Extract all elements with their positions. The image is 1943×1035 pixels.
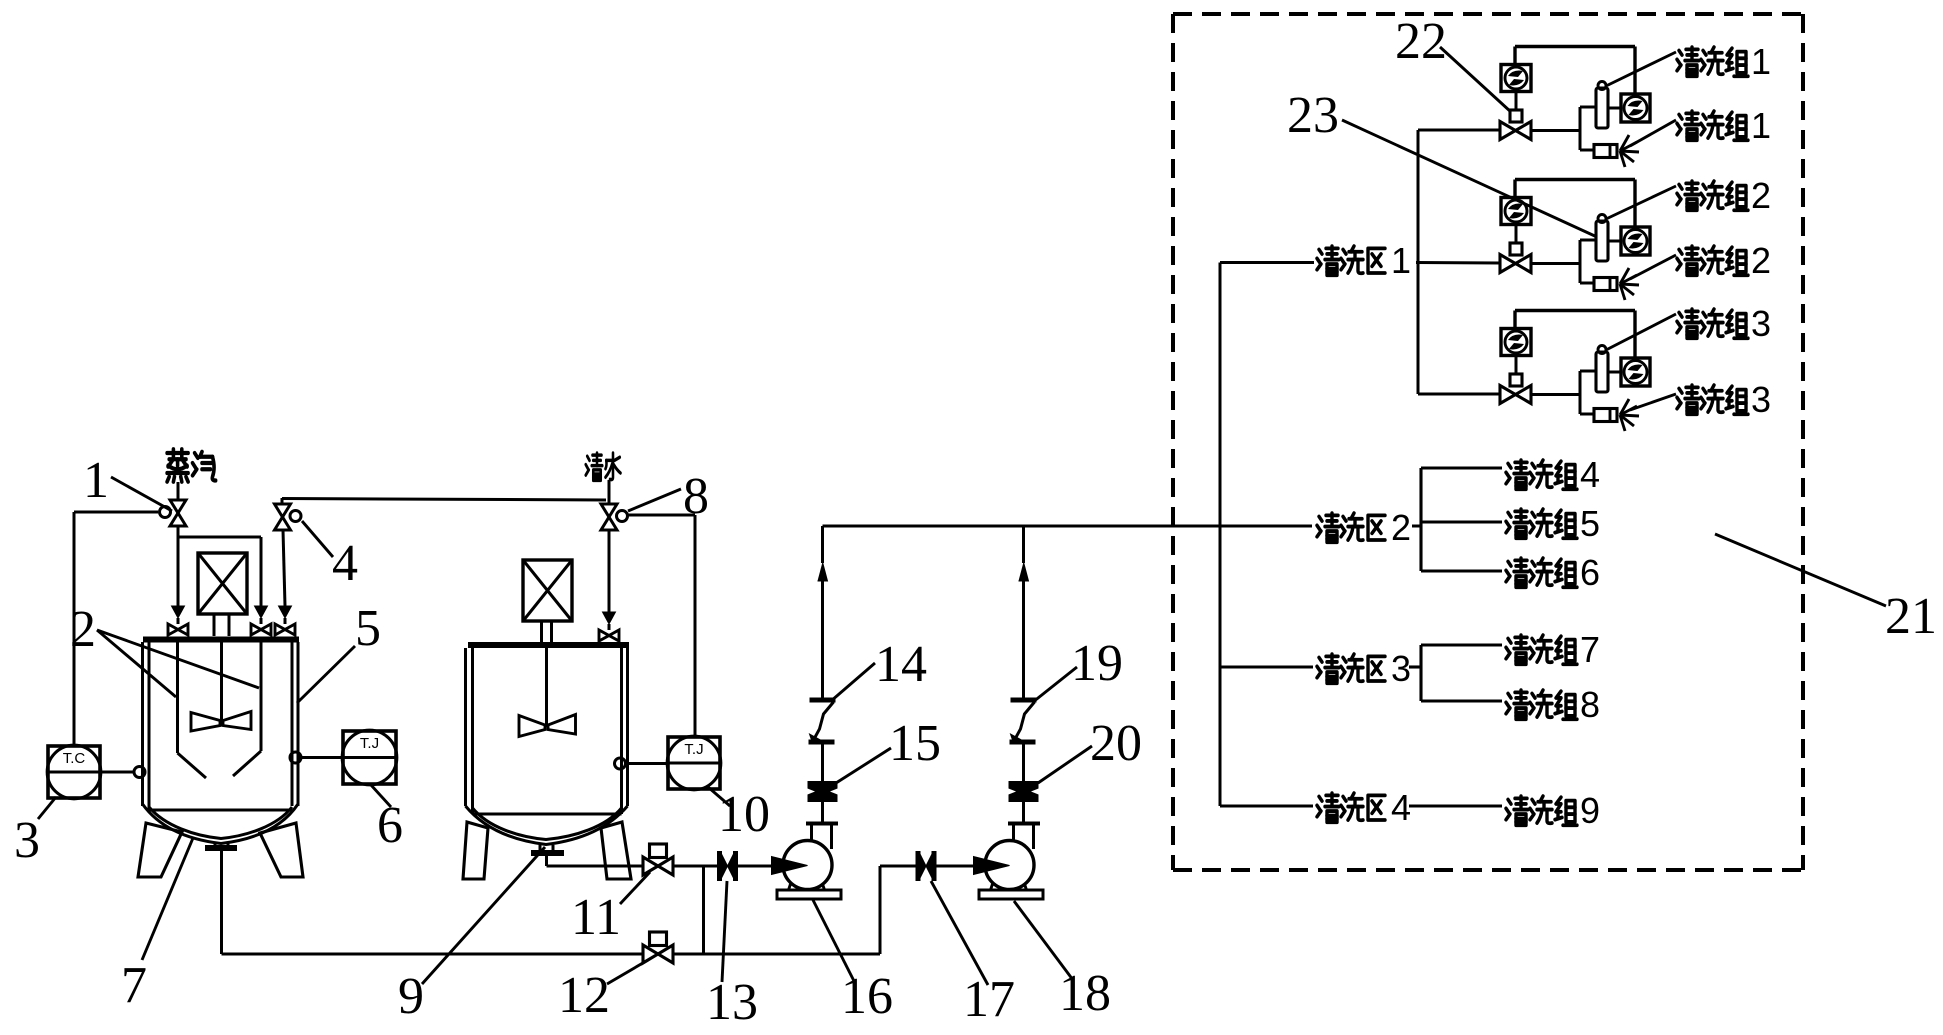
tank 7 right leg (260, 823, 303, 877)
valve 17 (check valve) (916, 851, 921, 881)
svg-text:19: 19 (1071, 635, 1123, 692)
tank1 lid valve b (255, 606, 268, 618)
cleaning unit group3 (1515, 309, 1635, 312)
svg-text:5: 5 (1580, 503, 1600, 544)
svg-text:3: 3 (1751, 303, 1771, 344)
label 清洗组4 (1506, 460, 1528, 489)
clean water label 清水 (586, 453, 603, 480)
tank 7 left leg (138, 823, 182, 877)
agitator shaft (545, 648, 548, 727)
svg-text:T.J: T.J (360, 735, 379, 752)
water pipe down to valve 8 (608, 480, 611, 504)
pump riser x=1023.5 (1022, 526, 1025, 563)
pipe below valve 4 to lid valve (283, 530, 285, 606)
tank 9 left leg (463, 822, 488, 879)
valve 15 (808, 781, 838, 795)
tank 7 lid (143, 637, 299, 643)
tank 7 agitator motor box (198, 553, 247, 614)
unit1 sprayer box B (1621, 94, 1650, 122)
zone2 text stub and bracket (1412, 525, 1421, 528)
svg-text:14: 14 (875, 636, 927, 693)
svg-text:T.C: T.C (63, 750, 86, 767)
svg-text:3: 3 (1751, 379, 1771, 420)
tank 9 impeller (519, 716, 545, 737)
svg-text:11: 11 (571, 889, 621, 946)
nozzle circles on tank 7 (134, 767, 145, 778)
leader to group label 1 upper (1606, 52, 1676, 86)
bottom drain header (222, 953, 881, 956)
dashed enclosure 21 (1173, 12, 1803, 16)
label 清洗组3 upper (1677, 309, 1699, 338)
unit2 valve actuator (1510, 243, 1522, 255)
svg-text:4: 4 (332, 535, 358, 592)
cleaning units vertical bus (1417, 130, 1420, 394)
unit2 spray lance cylinder (1596, 221, 1608, 261)
unit2 spray nozzle (1594, 278, 1617, 291)
impeller 2 (191, 713, 220, 732)
svg-text:8: 8 (683, 468, 709, 525)
unit2 sprayer box B (1621, 227, 1650, 255)
leader to group label 2 lower (1630, 255, 1676, 279)
unit3 spray nozzle (1594, 409, 1617, 422)
leader to group label 1 lower (1630, 120, 1676, 146)
tank 9 agitator motor box (523, 560, 572, 621)
svg-text:21: 21 (1885, 588, 1937, 645)
svg-text:9: 9 (398, 968, 424, 1025)
tank2 drain pipe (545, 856, 548, 866)
valve 20 (1009, 781, 1039, 795)
svg-text:1: 1 (1751, 41, 1771, 82)
instrument box 10 (668, 737, 720, 789)
flex joint 19 (1011, 698, 1037, 703)
svg-text:13: 13 (706, 974, 758, 1031)
unit3 spray lance cylinder (1596, 352, 1608, 392)
instrument box 3 (T.C) (48, 746, 100, 798)
label 清洗区3 (1317, 654, 1339, 683)
pipe below valve 8 to tank2 lid valve (608, 530, 611, 612)
cleaning unit group2 (1515, 178, 1635, 181)
unit3 sprayer box B (1621, 358, 1650, 386)
svg-text:4: 4 (1580, 454, 1600, 495)
valve 1 (steam valve) (170, 500, 186, 513)
pump 16 (783, 841, 832, 890)
label 清洗组3 lower (1677, 385, 1699, 414)
svg-text:2: 2 (70, 601, 96, 658)
label 清洗区1 (1317, 246, 1339, 275)
unit2 pipe valve (1500, 255, 1516, 273)
unit1 pipes (1418, 129, 1500, 132)
tank 7 bottom line (149, 809, 292, 812)
svg-text:T.J: T.J (684, 741, 703, 758)
unit2 sprayer box A (1501, 198, 1531, 225)
svg-text:22: 22 (1395, 13, 1447, 70)
label 清洗组1 upper (1677, 47, 1699, 76)
steam label 蒸汽 (167, 449, 188, 482)
tank 7 dished bottom (143, 804, 299, 844)
svg-text:1: 1 (83, 452, 109, 509)
svg-text:17: 17 (963, 971, 1015, 1028)
pump riser x=822.5 (821, 526, 824, 563)
label 清洗组2 upper (1677, 181, 1699, 210)
svg-text:12: 12 (558, 967, 610, 1024)
tank 9 outlet flange (539, 845, 542, 851)
label 清洗区2 (1317, 513, 1339, 542)
label 清洗组9 (1506, 796, 1528, 825)
leader to group label 3 upper (1606, 314, 1676, 350)
svg-text:2: 2 (1751, 175, 1771, 216)
label 清洗组5 (1506, 509, 1528, 538)
unit3 sprayer box A (1501, 329, 1531, 356)
valve 13 (check valve) (717, 851, 722, 881)
motor stand (213, 614, 216, 636)
tank1 drain pipe 下 (220, 851, 223, 954)
inner vessel walls 2 (176, 642, 179, 753)
tank2 lid valve (603, 612, 616, 624)
label 清洗组8 (1506, 690, 1528, 719)
valve 4 (275, 504, 291, 517)
unit1 spray nozzle (1594, 145, 1617, 158)
tank 9 dished bottom (466, 806, 628, 845)
steam pipe down to valve 1 (177, 482, 180, 500)
tank 9 bottom line (473, 813, 622, 816)
label 清洗区4 (1317, 793, 1339, 822)
svg-text:9: 9 (1580, 790, 1600, 831)
junction riser x=703.5 (702, 866, 705, 954)
leader to group label 3 lower (1630, 394, 1676, 410)
svg-text:2: 2 (1391, 507, 1411, 548)
label 清洗组6 (1506, 558, 1528, 587)
svg-text:23: 23 (1287, 87, 1339, 144)
tank 7 outer jacket walls 5 (141, 642, 144, 806)
left signal line down to T.C box 3 (73, 512, 76, 746)
valve 8 circle line to T.J box 10 (628, 514, 695, 517)
cleaning unit group1 (1515, 45, 1635, 48)
unit3 valve actuator (1510, 374, 1522, 386)
label 清洗组7 (1506, 635, 1528, 664)
unit1 valve actuator (1510, 110, 1522, 122)
svg-text:16: 16 (841, 968, 893, 1025)
pipe valve4 top riser and cross line to valve 8 (281, 498, 284, 504)
valve 11 (650, 844, 667, 858)
zone4 branch (1220, 805, 1313, 808)
svg-text:3: 3 (14, 812, 40, 869)
unit2 pipes (1531, 262, 1580, 265)
tank 7 bottom outlet flange (214, 843, 217, 846)
tank 9 lid (468, 642, 629, 648)
unit3 pipe valve (1500, 386, 1516, 404)
line from left nozzle to T.C box (100, 771, 134, 774)
svg-text:20: 20 (1090, 715, 1142, 772)
instrument box 6 (T.J) (343, 731, 396, 784)
tank 9 side nozzle (615, 758, 626, 769)
valve 12 (650, 932, 667, 946)
zone1 branch (1220, 261, 1314, 264)
tank1 lid valve c (279, 606, 292, 618)
label 清洗组1 lower (1677, 111, 1699, 140)
leader to group label 2 upper (1606, 186, 1676, 219)
pipe from valve 1 circle to left frame (74, 511, 158, 514)
svg-text:6: 6 (1580, 552, 1600, 593)
riser from header to pump18 branch (879, 866, 882, 954)
valve 8 (601, 504, 617, 517)
svg-text:2: 2 (1751, 240, 1771, 281)
svg-text:1: 1 (1391, 240, 1411, 281)
svg-text:3: 3 (1391, 648, 1411, 689)
motor stand (540, 621, 543, 642)
tank1 lid valve a (172, 606, 185, 618)
label 清洗组2 lower (1677, 246, 1699, 275)
svg-text:10: 10 (718, 786, 770, 843)
unit3 pipes (1418, 393, 1500, 396)
agitator shaft (220, 642, 223, 726)
svg-text:7: 7 (121, 957, 147, 1014)
unit1 pipe valve (1500, 122, 1516, 140)
tank 9 right leg (601, 822, 631, 879)
svg-text:15: 15 (889, 715, 941, 772)
line from right nozzle to T.J box 6 (301, 756, 343, 759)
CIP supply line to cleaning zones (823, 525, 1313, 528)
pump 18 (985, 841, 1034, 890)
unit1 spray lance cylinder (1596, 88, 1608, 128)
flex joint 14 (810, 698, 836, 703)
svg-text:4: 4 (1391, 787, 1411, 828)
unit1 sprayer box A (1501, 65, 1531, 92)
svg-text:8: 8 (1580, 684, 1600, 725)
zone3 branch (1220, 666, 1313, 669)
branch pipe to second lid valve (178, 536, 261, 539)
pipe below valve 1 down to tank lid valve (177, 526, 180, 606)
svg-text:7: 7 (1580, 629, 1600, 670)
tank 9 walls (464, 648, 467, 806)
svg-text:1: 1 (1751, 105, 1771, 146)
zone trunk line (1219, 263, 1222, 807)
svg-text:5: 5 (355, 600, 381, 657)
